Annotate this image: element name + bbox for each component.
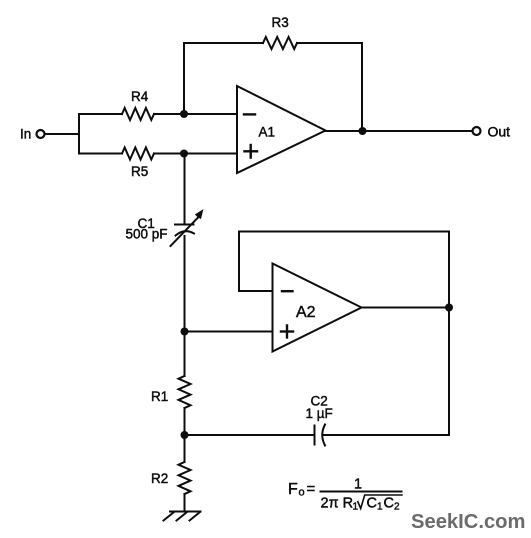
svg-text:1: 1	[354, 477, 362, 493]
svg-text:A1: A1	[259, 125, 276, 140]
svg-text:=: =	[307, 481, 316, 498]
svg-text:R4: R4	[131, 89, 149, 104]
svg-text:In: In	[20, 127, 31, 142]
svg-text:1: 1	[377, 502, 383, 513]
svg-text:SeekIC.com: SeekIC.com	[411, 511, 525, 533]
svg-text:R5: R5	[131, 164, 148, 179]
svg-text:Out: Out	[488, 124, 511, 140]
svg-text:C: C	[367, 496, 377, 512]
svg-text:A2: A2	[296, 304, 316, 321]
svg-text:R3: R3	[272, 15, 289, 30]
svg-text:o: o	[299, 487, 305, 499]
svg-text:R2: R2	[151, 471, 168, 486]
svg-text:2π R: 2π R	[321, 496, 354, 512]
svg-text:C: C	[384, 496, 394, 512]
svg-text:500 pF: 500 pF	[126, 227, 168, 242]
svg-text:1 µF: 1 µF	[306, 406, 333, 421]
svg-text:2: 2	[394, 502, 400, 513]
svg-text:R1: R1	[151, 389, 168, 404]
svg-text:F: F	[288, 481, 298, 498]
